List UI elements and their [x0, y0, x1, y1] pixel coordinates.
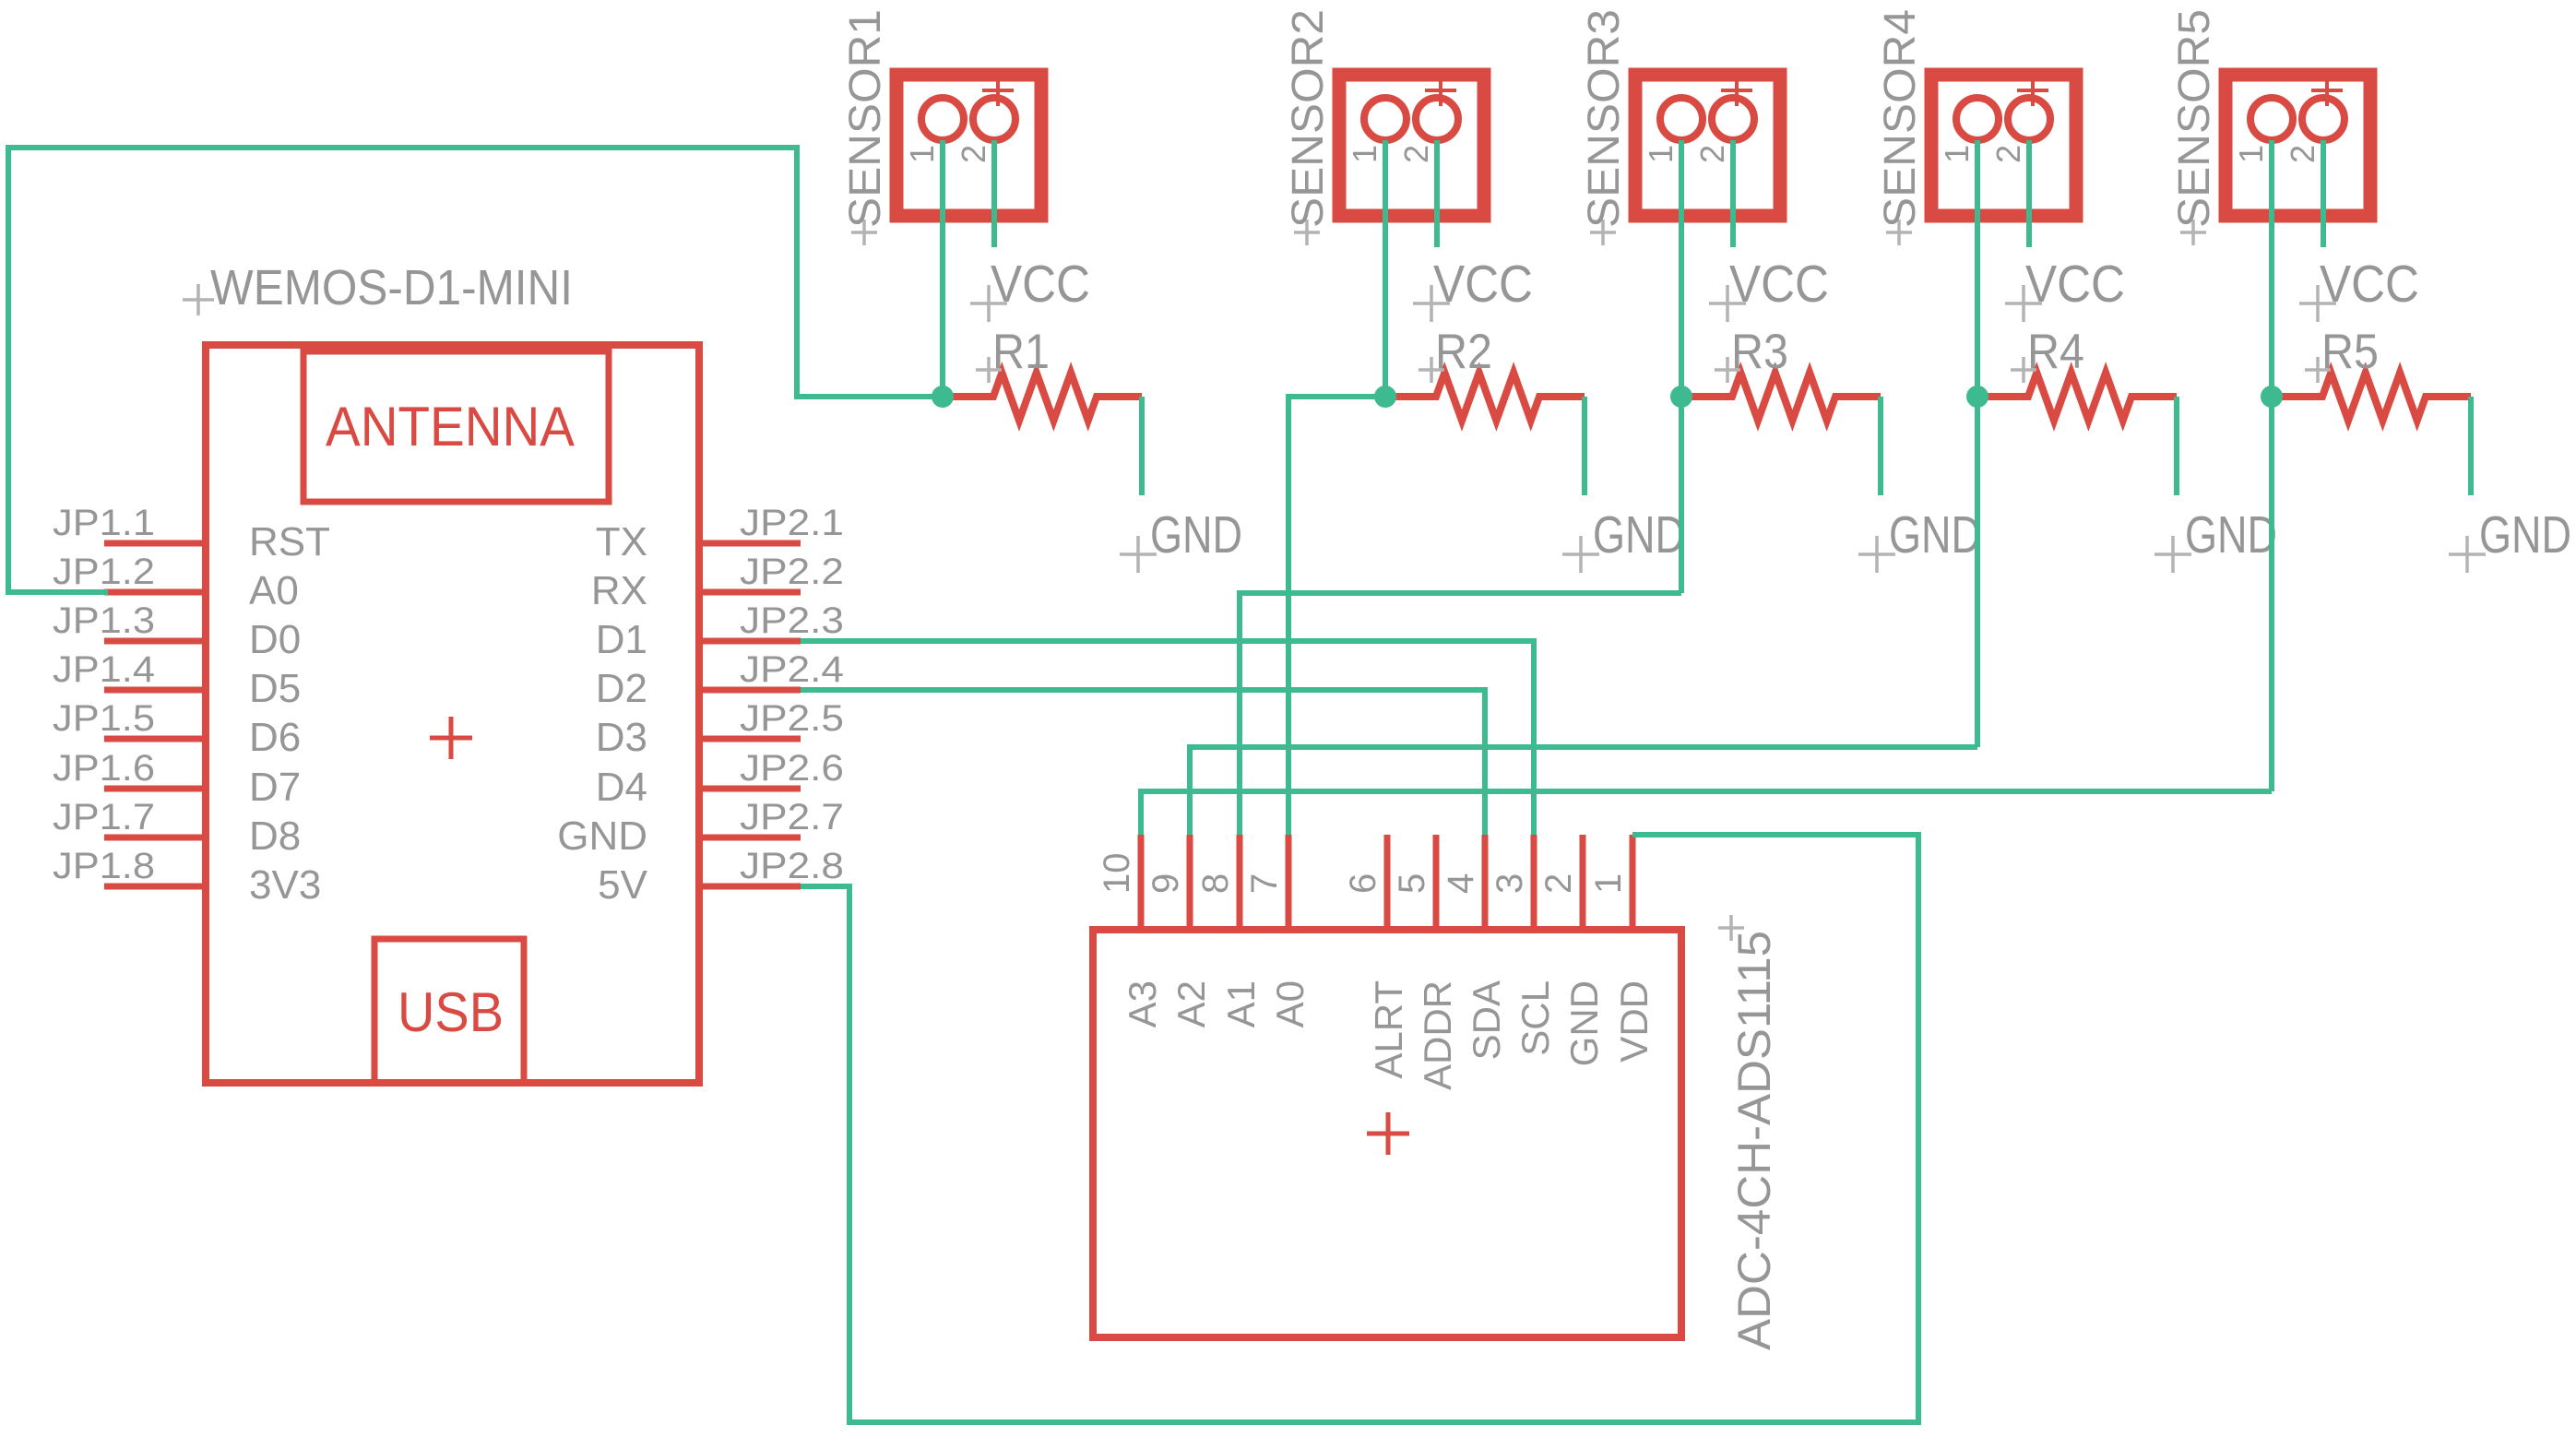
svg-text:R2: R2 [1435, 325, 1492, 379]
U2 pin 10 (A3) [1097, 835, 1164, 1027]
U2 pin 4 (SDA) [1441, 835, 1508, 1060]
SENSOR1 origin cross [982, 75, 1014, 106]
svg-text:10: 10 [1097, 853, 1137, 895]
U1 part-name label WEMOS-D1-MINI [183, 260, 573, 315]
svg-text:GND: GND [1889, 505, 1981, 564]
SENSOR5 pad 2 [2284, 98, 2345, 163]
svg-text:8: 8 [1195, 873, 1236, 894]
svg-text:3V3: 3V3 [249, 862, 321, 908]
svg-text:1: 1 [2232, 145, 2270, 163]
wire net SENSOR4 signal to U2 pin9 A2 [1190, 747, 1977, 835]
U2 pin 1 (VDD) [1588, 835, 1656, 1063]
U1 pin JP1.1 (RST) [53, 503, 330, 564]
svg-text:7: 7 [1244, 873, 1285, 894]
U1 pin JP1.4 (D5) [53, 649, 301, 711]
svg-text:D3: D3 [596, 715, 647, 760]
svg-text:2: 2 [1693, 145, 1731, 163]
svg-text:JP2.7: JP2.7 [740, 797, 844, 837]
svg-text:GND: GND [2479, 505, 2571, 564]
connector SENSOR3 body [1635, 75, 1780, 216]
SENSOR2 label [1284, 9, 1333, 245]
svg-text:JP1.7: JP1.7 [53, 797, 155, 837]
wire SENSOR4 pad1 down to net A2 [1975, 140, 1980, 747]
R3 label [1715, 325, 1788, 383]
R1 label [976, 325, 1050, 383]
U2 pin 9 (A2) [1146, 835, 1213, 1027]
svg-text:A2: A2 [1169, 980, 1213, 1027]
svg-text:GND: GND [1562, 980, 1606, 1066]
svg-text:SENSOR5: SENSOR5 [2170, 9, 2219, 228]
power symbol VCC4 [2005, 255, 2125, 322]
SENSOR1 label [841, 9, 890, 245]
SENSOR4 label [1876, 9, 1925, 245]
wire R2 to GND [1582, 397, 1587, 495]
svg-text:JP2.2: JP2.2 [740, 552, 844, 592]
U1 pin JP2.6 (D4) [596, 748, 844, 810]
wire SENSOR5 pad2 to VCC [2321, 140, 2326, 247]
SENSOR3 origin cross [1721, 75, 1752, 106]
R4 label [2011, 325, 2084, 383]
wire SENSOR1 pad1 to junction [940, 140, 945, 397]
svg-text:ALRT: ALRT [1367, 980, 1410, 1079]
svg-text:R3: R3 [1731, 325, 1788, 379]
wire R1 to GND [1139, 397, 1145, 495]
svg-text:JP2.3: JP2.3 [740, 600, 844, 641]
wire net SENSOR2 signal to U2 pin7 A0 [1288, 397, 1385, 835]
svg-text:A1: A1 [1219, 980, 1263, 1027]
svg-text:JP1.6: JP1.6 [53, 748, 155, 789]
power symbol VCC3 [1709, 255, 1829, 322]
SENSOR3 label [1580, 9, 1629, 245]
U2 pin 7 (A0) [1244, 835, 1312, 1027]
svg-text:GND: GND [2185, 505, 2277, 564]
svg-text:5V: 5V [598, 862, 647, 908]
wire SENSOR3 pad2 to VCC [1730, 140, 1736, 247]
U2 part-name label ADC-4CH-ADS1115 [1718, 915, 1780, 1350]
SENSOR4 pad 1 [1938, 98, 1999, 163]
svg-text:D4: D4 [596, 765, 647, 810]
connector SENSOR5 body [2226, 75, 2370, 216]
resistor R4 [1977, 373, 2177, 421]
U1 pin JP2.7 (GND) [557, 797, 844, 859]
svg-text:RST: RST [249, 519, 330, 564]
SENSOR3 pad 1 [1642, 98, 1703, 163]
U1 pin JP1.5 (D6) [53, 698, 301, 760]
U1 pin JP2.8 (5V) [598, 846, 844, 908]
U1 pin JP1.8 (3V3) [53, 846, 321, 908]
U1 USB sub-block [374, 939, 524, 1083]
wire net SENSOR5 signal to U2 pin10 A3 [1141, 791, 2272, 835]
svg-text:ADDR: ADDR [1416, 980, 1459, 1090]
svg-text:1: 1 [1588, 873, 1629, 894]
svg-text:VDD: VDD [1612, 980, 1656, 1063]
IC U2 ADC-4CH-ADS1115 body [1093, 930, 1681, 1337]
svg-text:5: 5 [1392, 873, 1432, 894]
svg-text:A0: A0 [1268, 980, 1312, 1027]
U2 pin 5 (ADDR) [1392, 835, 1459, 1090]
ground GND2 [1562, 505, 1685, 573]
connector SENSOR2 body [1339, 75, 1484, 216]
svg-text:1: 1 [903, 145, 941, 163]
SENSOR2 pad 2 [1397, 98, 1458, 163]
svg-text:VCC: VCC [2025, 255, 2125, 314]
svg-text:RX: RX [591, 568, 647, 613]
svg-text:1: 1 [1346, 145, 1383, 163]
U2 pin 3 (SCL) [1490, 835, 1557, 1056]
U2 pin 6 (ALRT) [1343, 835, 1410, 1079]
svg-text:JP2.5: JP2.5 [740, 698, 844, 739]
power symbol VCC2 [1413, 255, 1533, 322]
wire SENSOR1 pad2 to VCC [991, 140, 997, 247]
svg-text:ANTENNA: ANTENNA [326, 396, 575, 457]
resistor R5 [2272, 373, 2471, 421]
power symbol VCC1 [970, 255, 1090, 322]
module U1 WEMOS-D1-MINI body [206, 345, 699, 1083]
svg-text:SCL: SCL [1514, 980, 1557, 1056]
svg-text:JP1.4: JP1.4 [53, 649, 155, 690]
svg-text:D6: D6 [249, 715, 301, 760]
junction node SENSOR5/R5 [2261, 386, 2283, 408]
svg-text:JP2.8: JP2.8 [740, 846, 844, 886]
SENSOR4 pad 2 [1989, 98, 2050, 163]
svg-text:2: 2 [1538, 873, 1579, 894]
U1 ANTENNA sub-block [303, 351, 609, 502]
SENSOR2 origin cross [1425, 75, 1456, 106]
svg-text:JP1.5: JP1.5 [53, 698, 155, 739]
resistor R2 [1385, 373, 1585, 421]
svg-text:SENSOR2: SENSOR2 [1284, 9, 1333, 228]
svg-text:1: 1 [1642, 145, 1680, 163]
resistor R3 [1681, 373, 1881, 421]
svg-text:2: 2 [1397, 145, 1435, 163]
svg-text:4: 4 [1441, 873, 1481, 894]
U2 pin 8 (A1) [1195, 835, 1263, 1027]
svg-text:SENSOR3: SENSOR3 [1580, 9, 1629, 228]
svg-text:GND: GND [1593, 505, 1685, 564]
svg-text:USB: USB [398, 981, 504, 1043]
wire SENSOR5 pad1 down to net A3 [2269, 140, 2274, 791]
svg-text:JP1.1: JP1.1 [53, 503, 155, 543]
svg-text:ADC-4CH-ADS1115: ADC-4CH-ADS1115 [1728, 931, 1780, 1350]
junction node SENSOR4/R4 [1966, 386, 1988, 408]
svg-text:GND: GND [557, 814, 647, 859]
SENSOR4 origin cross [2017, 75, 2048, 106]
SENSOR5 label [2170, 9, 2219, 245]
svg-text:2: 2 [1989, 145, 2027, 163]
svg-text:JP1.2: JP1.2 [53, 552, 155, 592]
U1 pin JP2.1 (TX) [596, 503, 844, 564]
svg-text:VCC: VCC [1729, 255, 1829, 314]
ground GND3 [1858, 505, 1981, 573]
wire net 5V/VDD (JP2.8 loop to U2 pin1) [801, 835, 1918, 1422]
svg-text:VCC: VCC [2320, 255, 2419, 314]
svg-text:D7: D7 [249, 765, 301, 810]
svg-text:JP2.4: JP2.4 [740, 649, 844, 690]
svg-text:D8: D8 [249, 814, 301, 859]
svg-text:SENSOR4: SENSOR4 [1876, 9, 1925, 228]
ground GND1 [1120, 505, 1242, 573]
U1 pin JP1.3 (D0) [53, 600, 301, 662]
U1 pin JP1.6 (D7) [53, 748, 301, 810]
svg-text:SDA: SDA [1465, 980, 1508, 1060]
svg-text:D5: D5 [249, 666, 301, 711]
U1 pin JP2.5 (D3) [596, 698, 844, 760]
svg-text:VCC: VCC [1433, 255, 1533, 314]
svg-text:WEMOS-D1-MINI: WEMOS-D1-MINI [210, 260, 573, 315]
svg-text:JP1.3: JP1.3 [53, 600, 155, 641]
svg-text:R1: R1 [992, 325, 1050, 379]
SENSOR2 pad 1 [1346, 98, 1407, 163]
svg-text:JP2.1: JP2.1 [740, 503, 844, 543]
svg-text:GND: GND [1150, 505, 1242, 564]
svg-text:R4: R4 [2027, 325, 2084, 379]
ground GND5 [2449, 505, 2571, 573]
wire net D1/SCL (JP2.3 to U2 pin3) [801, 641, 1534, 835]
svg-text:R5: R5 [2321, 325, 2379, 379]
R5 label [2305, 325, 2379, 383]
U1 pin JP2.4 (D2) [596, 649, 844, 711]
wire R5 to GND [2468, 397, 2474, 495]
svg-text:JP1.8: JP1.8 [53, 846, 155, 886]
SENSOR3 pad 2 [1693, 98, 1754, 163]
SENSOR5 origin cross [2311, 75, 2343, 106]
svg-text:D0: D0 [249, 617, 301, 662]
wire R3 to GND [1878, 397, 1883, 495]
R2 label [1419, 325, 1492, 383]
junction node SENSOR2/R2 [1374, 386, 1396, 408]
U1 pin JP2.2 (RX) [591, 552, 844, 613]
svg-text:TX: TX [596, 519, 647, 564]
wire SENSOR2 pad2 to VCC [1434, 140, 1440, 247]
svg-text:SENSOR1: SENSOR1 [841, 9, 890, 228]
junction node SENSOR1/R1 [932, 386, 954, 408]
svg-text:A0: A0 [249, 568, 299, 613]
U1 pin JP1.2 (A0) [53, 552, 299, 613]
svg-text:D2: D2 [596, 666, 647, 711]
wire SENSOR3 pad1 down to net A1 [1679, 140, 1684, 593]
connector SENSOR4 body [1931, 75, 2076, 216]
U1 pin JP2.3 (D1) [596, 600, 844, 662]
svg-text:JP2.6: JP2.6 [740, 748, 844, 789]
svg-text:A3: A3 [1121, 980, 1164, 1027]
U2 origin cross [1367, 1112, 1409, 1155]
U1 origin cross [430, 717, 472, 759]
U1 pin JP1.7 (D8) [53, 797, 301, 859]
wire SENSOR2 pad1 to junction [1383, 140, 1388, 397]
svg-text:1: 1 [1938, 145, 1976, 163]
SENSOR5 pad 1 [2232, 98, 2293, 163]
wire net D2/SDA (JP2.4 to U2 pin4) [801, 690, 1485, 835]
wire R4 to GND [2174, 397, 2179, 495]
svg-text:3: 3 [1490, 873, 1530, 894]
SENSOR1 pad 1 [903, 98, 964, 163]
svg-text:2: 2 [955, 145, 992, 163]
wire net A0 (JP1.2 to SENSOR1/R1 junction) [8, 148, 943, 592]
svg-text:D1: D1 [596, 617, 647, 662]
svg-text:VCC: VCC [991, 255, 1090, 314]
svg-text:2: 2 [2284, 145, 2321, 163]
wire net SENSOR3 signal to U2 pin8 A1 [1240, 593, 1681, 835]
svg-text:9: 9 [1146, 873, 1186, 894]
power symbol VCC5 [2299, 255, 2419, 322]
junction node SENSOR3/R3 [1670, 386, 1692, 408]
U2 pin 2 (GND) [1538, 835, 1606, 1066]
resistor R1 [943, 373, 1142, 421]
wire SENSOR4 pad2 to VCC [2026, 140, 2032, 247]
svg-text:6: 6 [1343, 873, 1383, 894]
connector SENSOR1 body [896, 75, 1041, 216]
ground GND4 [2155, 505, 2277, 573]
SENSOR1 pad 2 [955, 98, 1015, 163]
